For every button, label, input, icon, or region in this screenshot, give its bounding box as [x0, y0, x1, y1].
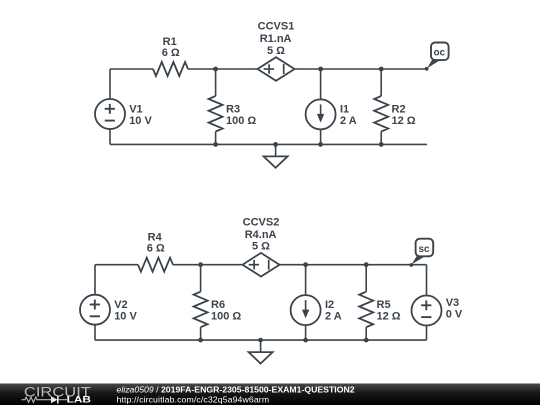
svg-text:oc: oc — [434, 48, 446, 59]
svg-text:V3: V3 — [446, 297, 459, 309]
svg-text:eliza0509 / 2019FA-ENGR-2305-8: eliza0509 / 2019FA-ENGR-2305-81500-EXAM1… — [117, 385, 355, 395]
svg-text:R4.nA: R4.nA — [245, 229, 277, 241]
svg-text:CCVS2: CCVS2 — [243, 216, 280, 228]
svg-text:sc: sc — [419, 244, 430, 255]
svg-text:http://circuitlab.com/c/c32q5a: http://circuitlab.com/c/c32q5a94w6arm — [117, 394, 270, 404]
svg-text:R3: R3 — [226, 103, 240, 115]
svg-text:10 V: 10 V — [129, 115, 152, 127]
svg-text:CCVS1: CCVS1 — [258, 21, 295, 33]
svg-text:2 A: 2 A — [325, 311, 342, 323]
svg-text:12 Ω: 12 Ω — [392, 115, 416, 127]
svg-text:10 V: 10 V — [114, 311, 137, 323]
svg-text:R6: R6 — [211, 299, 225, 311]
svg-text:LAB: LAB — [67, 395, 91, 405]
svg-text:12 Ω: 12 Ω — [377, 311, 401, 323]
svg-text:5 Ω: 5 Ω — [252, 241, 270, 253]
svg-text:I2: I2 — [325, 299, 334, 311]
svg-text:100 Ω: 100 Ω — [226, 115, 256, 127]
svg-text:2 A: 2 A — [340, 115, 357, 127]
svg-text:I1: I1 — [340, 103, 349, 115]
svg-text:V1: V1 — [129, 103, 142, 115]
svg-text:5 Ω: 5 Ω — [267, 45, 285, 57]
svg-text:R2: R2 — [392, 103, 406, 115]
svg-text:0 V: 0 V — [446, 308, 463, 320]
svg-text:V2: V2 — [114, 299, 127, 311]
svg-text:6 Ω: 6 Ω — [162, 47, 180, 59]
svg-text:100 Ω: 100 Ω — [211, 311, 241, 323]
svg-text:6 Ω: 6 Ω — [147, 243, 165, 255]
svg-text:R5: R5 — [377, 299, 391, 311]
svg-text:R1.nA: R1.nA — [260, 33, 292, 45]
